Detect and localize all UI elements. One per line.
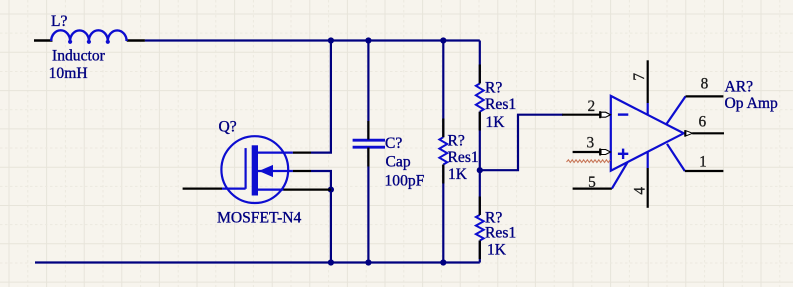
wire: MOSFET drain vertical to top rail bbox=[311, 41, 331, 153]
junction dot (443,40) bbox=[440, 37, 446, 43]
wire: top rail from inductor to right column bbox=[145, 39, 480, 41]
op-amp minus sign bbox=[618, 113, 628, 115]
resistor R2 (middle) bbox=[439, 137, 447, 164]
svg-text:7: 7 bbox=[631, 73, 648, 81]
junction dot (368,40) bbox=[365, 37, 371, 43]
pin 2 inverting input bbox=[562, 114, 600, 116]
wire: right column top (R1) bbox=[479, 41, 481, 84]
capacitor C? bbox=[353, 140, 385, 147]
resistor R1 (top right) bbox=[476, 84, 484, 112]
svg-text:L?: L? bbox=[51, 13, 68, 30]
svg-text:Res1: Res1 bbox=[485, 96, 516, 113]
op-amp AR? triangle bbox=[611, 96, 684, 171]
svg-text:1K: 1K bbox=[487, 241, 507, 258]
svg-text:MOSFET-N4: MOSFET-N4 bbox=[217, 210, 302, 227]
wire: middle resistor column bbox=[442, 41, 444, 138]
svg-text:100pF: 100pF bbox=[385, 172, 425, 189]
svg-text:Op Amp: Op Amp bbox=[725, 95, 778, 112]
junction dot (443,262) bbox=[440, 259, 446, 265]
svg-text:R?: R? bbox=[485, 79, 502, 96]
svg-text:1: 1 bbox=[699, 154, 707, 171]
pin 3 non-inverting input bbox=[573, 151, 600, 153]
op-amp plus sign bbox=[618, 153, 628, 155]
resistor R3 pin stubs bbox=[479, 197, 481, 215]
svg-text:Cap: Cap bbox=[386, 153, 411, 170]
svg-text:6: 6 bbox=[698, 114, 706, 131]
svg-text:Inductor: Inductor bbox=[52, 48, 106, 65]
svg-text:1K: 1K bbox=[486, 114, 506, 131]
svg-text:Res1: Res1 bbox=[485, 224, 516, 241]
junction dot (368,262) bbox=[365, 259, 371, 265]
svg-text:8: 8 bbox=[701, 76, 709, 93]
pin 7 (V+) bbox=[647, 60, 649, 103]
wire: junction to op-amp pin 2 bbox=[480, 115, 563, 171]
pin 6 output bbox=[684, 130, 686, 137]
resistor R3 (bottom right) bbox=[476, 215, 484, 241]
svg-text:Res1: Res1 bbox=[448, 149, 479, 166]
pin 8 bbox=[667, 96, 686, 124]
svg-text:Q?: Q? bbox=[219, 118, 237, 135]
wire: capacitor top vertical bbox=[367, 41, 369, 140]
resistor R1 pin stubs bbox=[479, 65, 481, 84]
svg-text:R?: R? bbox=[448, 132, 465, 149]
resistor R2 pin stubs bbox=[442, 119, 444, 138]
junction dot (331,40) bbox=[328, 37, 334, 43]
wire: MOSFET source/bulk vertical to bottom rail bbox=[311, 171, 331, 263]
transistor Q? MOSFET bbox=[183, 136, 331, 203]
svg-text:10mH: 10mH bbox=[49, 65, 88, 82]
wire: bottom rail bbox=[35, 261, 480, 263]
svg-text:1K: 1K bbox=[448, 166, 468, 183]
svg-text:4: 4 bbox=[632, 187, 649, 195]
junction dot (331,262) bbox=[328, 259, 334, 265]
capacitor C? pin stubs (black) bbox=[367, 121, 369, 140]
junction dot (331,190) bbox=[328, 187, 334, 193]
junction dot (480,170) bbox=[477, 167, 483, 173]
pin 5 bbox=[573, 188, 612, 190]
wire: capacitor bottom vertical bbox=[367, 148, 369, 263]
inductor L? bbox=[34, 30, 145, 44]
svg-text:2: 2 bbox=[587, 98, 595, 115]
svg-text:AR?: AR? bbox=[725, 78, 754, 95]
no-ERC squiggle under pin 3 bbox=[567, 160, 611, 163]
svg-text:3: 3 bbox=[586, 135, 594, 152]
svg-text:5: 5 bbox=[588, 174, 596, 191]
svg-text:C?: C? bbox=[385, 135, 402, 152]
pin 4 (V-) bbox=[647, 152, 649, 168]
pin 1 bbox=[667, 144, 685, 171]
